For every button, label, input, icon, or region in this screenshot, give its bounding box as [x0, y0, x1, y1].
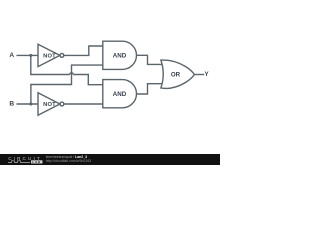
OR gate U5 body — [161, 60, 195, 88]
wire OR output to Y — [194, 74, 204, 76]
junction dot B — [29, 102, 32, 105]
wire B branch horizontal, cross vertical up, into AND1 bottom input — [30, 65, 103, 84]
AND gate U4 body — [103, 80, 137, 108]
wire NOT2 output to AND2 bottom input — [64, 103, 103, 105]
svg-text:Y: Y — [205, 71, 210, 78]
svg-text:NOT: NOT — [43, 54, 56, 60]
svg-text:http://circuitlab.com/c/9h2263: http://circuitlab.com/c/9h2263 — [46, 159, 92, 163]
svg-text:AND: AND — [113, 91, 127, 98]
footer logo waveform — [8, 161, 30, 163]
footer bar — [0, 154, 220, 165]
wire B input — [17, 103, 39, 105]
wire hop over B vertical — [70, 73, 73, 75]
wire B branch vertical up — [30, 85, 32, 105]
NOT gate U2 bubble — [60, 102, 64, 106]
svg-text:NOT: NOT — [43, 102, 56, 108]
NOT gate U1 triangle — [38, 44, 60, 66]
wire NOT1 output to AND1 top input — [64, 46, 103, 55]
wire AND2 output to OR bottom input — [137, 84, 167, 94]
svg-text:B: B — [9, 101, 14, 108]
wire A input — [17, 54, 39, 56]
junction dot A — [29, 54, 32, 57]
svg-text:A: A — [9, 52, 14, 59]
NOT gate U2 triangle — [38, 93, 60, 115]
NOT gate U1 bubble — [60, 54, 64, 58]
wire A branch vertical — [30, 55, 32, 74]
footer logo LAB — [31, 160, 43, 163]
wire AND1 output to OR top input — [137, 55, 167, 64]
wire A branch horizontal left of hop — [30, 74, 70, 76]
svg-text:OR: OR — [171, 71, 181, 78]
svg-text:LAB: LAB — [32, 160, 40, 164]
AND gate U3 body — [103, 41, 137, 69]
svg-text:AND: AND — [113, 52, 127, 59]
wire A branch horizontal right of hop, jog down, into AND2 top input — [73, 75, 103, 85]
